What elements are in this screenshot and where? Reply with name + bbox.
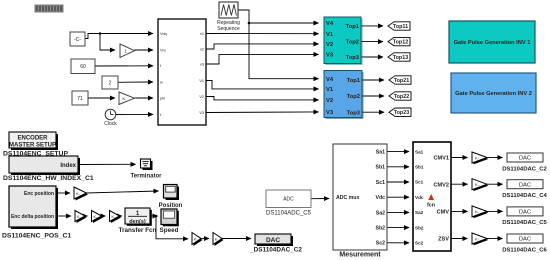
svg-text:ADC: ADC: [283, 197, 294, 203]
svg-text:Sb2: Sb2: [415, 225, 424, 230]
svg-text:K-: K-: [475, 236, 480, 241]
svg-text:ADC mux: ADC mux: [336, 195, 359, 201]
svg-text:den(s): den(s): [129, 219, 146, 225]
svg-text:CMV: CMV: [437, 209, 450, 215]
svg-text:V1: V1: [199, 79, 204, 83]
svg-text:Enc delta position: Enc delta position: [11, 214, 54, 220]
svg-text:ZSV: ZSV: [438, 236, 449, 242]
svg-text:Top21: Top21: [394, 78, 409, 84]
svg-text:60: 60: [80, 64, 86, 70]
svg-text:Sa1: Sa1: [376, 150, 385, 156]
svg-text:Top22: Top22: [394, 94, 409, 100]
svg-text:Top23: Top23: [394, 110, 409, 116]
svg-text:V3: V3: [326, 110, 334, 116]
svg-text:71: 71: [77, 96, 83, 102]
svg-text:DS1104DAC_C4: DS1104DAC_C4: [502, 193, 547, 199]
svg-text:DAC: DAC: [519, 210, 531, 216]
svg-text:Sb2: Sb2: [375, 226, 385, 232]
svg-text:phi: phi: [160, 96, 165, 100]
svg-text:K-: K-: [475, 155, 480, 160]
svg-text:V1: V1: [326, 87, 334, 93]
svg-text:Enc position: Enc position: [24, 191, 54, 197]
svg-text:Top13: Top13: [393, 55, 408, 61]
svg-text:DS1104DAC_C2: DS1104DAC_C2: [502, 166, 547, 172]
svg-text:Speed: Speed: [160, 227, 179, 234]
svg-text:v2: v2: [200, 47, 204, 51]
svg-text:DAC: DAC: [266, 237, 280, 244]
svg-text:K-: K-: [123, 96, 128, 101]
svg-text:DAC: DAC: [519, 237, 531, 243]
svg-text:DS1104DAC_C5: DS1104DAC_C5: [502, 220, 547, 226]
svg-text:Terminator: Terminator: [131, 173, 163, 179]
svg-text:Sc2: Sc2: [415, 241, 424, 246]
svg-text:DS1104ADC_C5: DS1104ADC_C5: [266, 211, 312, 217]
svg-text:MASTER SETUP: MASTER SETUP: [9, 142, 56, 148]
svg-text:Top11: Top11: [393, 24, 408, 30]
svg-text:DS1104ENC_POS_C1: DS1104ENC_POS_C1: [2, 233, 71, 240]
svg-text:Vdc: Vdc: [375, 195, 385, 201]
svg-text:Sa1: Sa1: [415, 149, 424, 154]
svg-text:CMV2: CMV2: [433, 182, 449, 188]
svg-text:V1: V1: [326, 32, 334, 38]
svg-text:ENCODER: ENCODER: [17, 136, 48, 142]
svg-text:Sa2: Sa2: [415, 210, 424, 215]
svg-text:Mesurement: Mesurement: [339, 252, 381, 259]
svg-text:Sa2: Sa2: [376, 210, 385, 216]
svg-text:Sc2: Sc2: [376, 241, 385, 247]
svg-text:V4: V4: [326, 77, 334, 83]
svg-text:DS1104ENC_HW_INDEX_C1: DS1104ENC_HW_INDEX_C1: [3, 175, 94, 182]
svg-text:Top3: Top3: [347, 110, 361, 116]
svg-text:DAC: DAC: [519, 182, 531, 188]
svg-text:v3: v3: [200, 62, 204, 66]
svg-text:-C-: -C-: [74, 37, 81, 43]
svg-text:Sc1: Sc1: [415, 180, 424, 185]
svg-text:K-: K-: [475, 182, 480, 187]
svg-text:Top1: Top1: [347, 78, 361, 84]
svg-text:fcn: fcn: [427, 202, 435, 208]
svg-text:2: 2: [109, 81, 112, 87]
svg-text:Clock: Clock: [104, 121, 117, 127]
svg-text:Top2: Top2: [347, 94, 360, 100]
svg-text:Transfer Fcn: Transfer Fcn: [119, 227, 157, 234]
svg-text:DAC: DAC: [519, 156, 531, 162]
svg-text:_DS1104DAC_C2: _DS1104DAC_C2: [249, 246, 302, 253]
svg-text:Sc1: Sc1: [376, 180, 385, 186]
svg-text:Sb1: Sb1: [415, 165, 424, 170]
svg-text:Top1: Top1: [346, 24, 360, 30]
svg-text:Vdq: Vdq: [160, 32, 167, 36]
svg-text:V4: V4: [326, 21, 334, 27]
svg-text:Top12: Top12: [393, 40, 408, 46]
svg-text:Position: Position: [159, 203, 183, 209]
svg-text:DS1104DAC_C6: DS1104DAC_C6: [502, 247, 547, 253]
svg-text:w: w: [160, 80, 163, 84]
svg-text:V2: V2: [326, 98, 333, 104]
svg-text:Top2: Top2: [346, 40, 359, 46]
svg-text:v1: v1: [200, 32, 204, 36]
svg-text:Vdc: Vdc: [415, 195, 424, 200]
svg-text:V2: V2: [199, 95, 204, 99]
svg-text:Gate Pulse Generation INV 2: Gate Pulse Generation INV 2: [455, 91, 532, 97]
svg-text:Gate Pulse Generation INV 1: Gate Pulse Generation INV 1: [454, 40, 531, 46]
svg-text:V2: V2: [326, 42, 333, 48]
svg-text:CMV1: CMV1: [433, 155, 449, 161]
svg-text:Vm: Vm: [160, 48, 166, 52]
svg-text:V3: V3: [199, 111, 204, 115]
svg-text:K-: K-: [475, 209, 480, 214]
svg-text:Index: Index: [60, 163, 76, 169]
svg-text:Sb1: Sb1: [375, 165, 385, 171]
svg-text:V3: V3: [326, 53, 334, 59]
svg-text:Top3: Top3: [346, 55, 360, 61]
svg-text:Sequence: Sequence: [217, 26, 240, 32]
